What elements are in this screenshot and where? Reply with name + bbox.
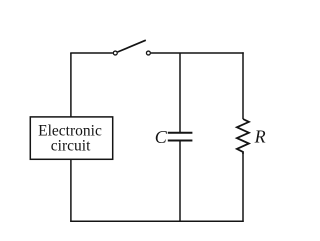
wire: top-right horizontal from switch to resistor branch xyxy=(151,52,244,54)
capacitor C1 bottom plate xyxy=(168,140,193,142)
wire: bottom horizontal rail xyxy=(70,220,244,222)
electronic circuit block U1 xyxy=(30,117,112,159)
svg-text:C: C xyxy=(155,127,168,147)
switch S1 throw terminal (right circle) xyxy=(146,51,150,55)
resistor R1 zigzag xyxy=(237,119,249,154)
wire: right vertical from resistor to bottom rail xyxy=(242,154,244,222)
switch S1 blade (open) xyxy=(118,40,146,52)
svg-text:R: R xyxy=(254,127,266,147)
switch S1 pole terminal (left circle) xyxy=(113,51,117,55)
svg-text:circuit: circuit xyxy=(51,138,91,155)
capacitor C1 top plate xyxy=(168,132,193,134)
wire: left vertical (box top to top rail) xyxy=(70,53,72,117)
wire: right vertical from top rail to resistor xyxy=(242,52,244,119)
wire: capacitor branch from top rail to top plate xyxy=(179,53,181,133)
wire: top-left horizontal to switch xyxy=(70,52,113,54)
wire: left vertical (box bottom to bottom rail) xyxy=(70,159,72,222)
wire: capacitor branch from bottom plate to bottom rail xyxy=(179,141,181,222)
